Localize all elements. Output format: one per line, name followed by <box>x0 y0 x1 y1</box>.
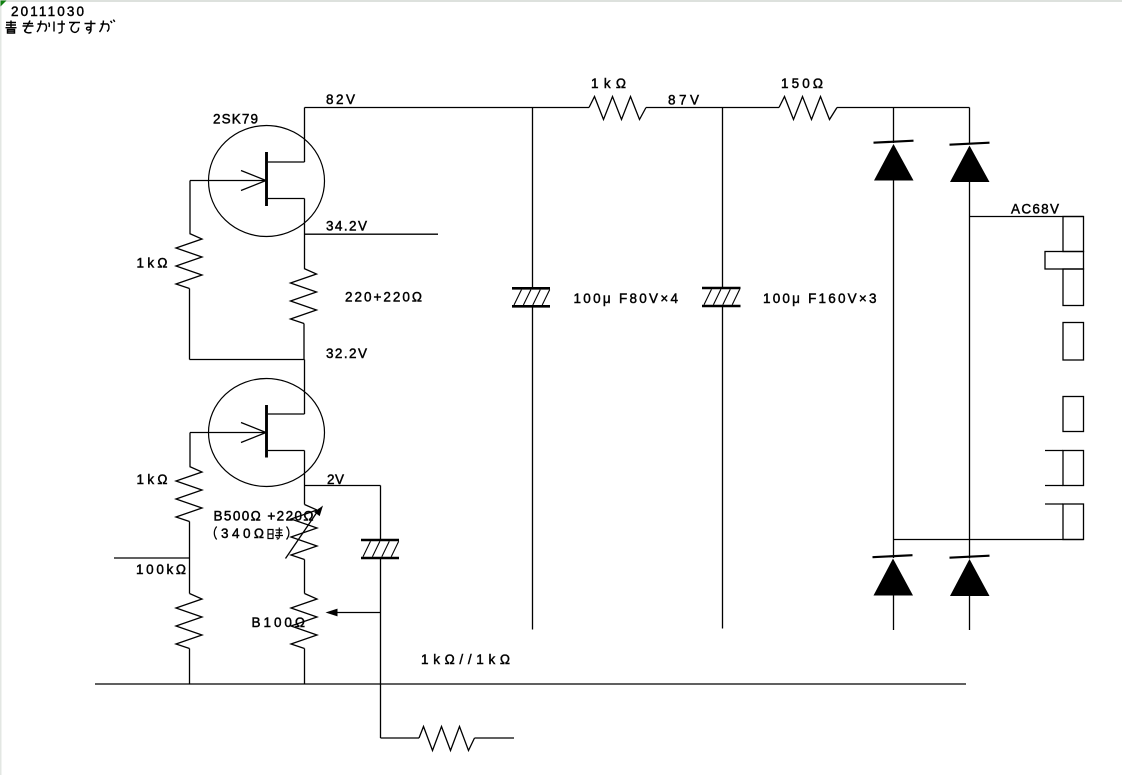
resistor 1kΩ//1kΩ (bottom) <box>381 727 515 751</box>
svg-text:87V: 87V <box>668 93 699 108</box>
resistor 150Ω <box>779 97 837 120</box>
svg-text:100μ F80V×4: 100μ F80V×4 <box>574 291 679 306</box>
wire Q1-gate-resistor bottom to source node <box>190 289 305 360</box>
wire Q2 gate resistor bottom <box>189 522 191 594</box>
resistor 1kΩ (Q2 gate) <box>176 467 202 522</box>
svg-text:2V: 2V <box>327 472 344 487</box>
wire AC68V tap <box>970 216 1084 218</box>
svg-text:AC68V: AC68V <box>1011 202 1059 217</box>
svg-text:100μ F160V×3: 100μ F160V×3 <box>763 291 877 306</box>
svg-text:32.2V: 32.2V <box>326 346 367 361</box>
transistor Q2 2SK79 (lower) <box>190 379 325 487</box>
wire 2V node <box>305 485 381 487</box>
transformer T1 winding segment 3 <box>1063 323 1084 361</box>
svg-text:2SK79: 2SK79 <box>213 112 258 127</box>
wire bottom bridge bus <box>894 539 1084 541</box>
diode D2 (top right of bridge) <box>950 108 990 540</box>
transformer T1 tap tab <box>1045 252 1084 270</box>
svg-text:B100Ω: B100Ω <box>252 615 306 630</box>
svg-text:150Ω: 150Ω <box>781 76 823 91</box>
variable resistor B500Ω+220Ω <box>286 486 324 594</box>
wire top rail segment left <box>305 107 590 109</box>
svg-text:340Ω: 340Ω <box>221 526 264 541</box>
wire top rail segment right <box>837 107 970 109</box>
note 書きかけですが (hand-drawn kana) <box>6 20 115 34</box>
transformer T1 winding segment 2 <box>1063 269 1084 306</box>
diode D1 (top left of bridge) <box>874 108 914 540</box>
capacitor C2 100μF160V×3 branch <box>702 108 741 629</box>
wire ground rail <box>95 683 966 685</box>
svg-text:100kΩ: 100kΩ <box>136 562 186 577</box>
transistor Q1 2SK79 <box>190 108 325 269</box>
wire 34.2V tap <box>305 233 439 235</box>
svg-text:1kΩ: 1kΩ <box>591 76 626 91</box>
resistor 1kΩ (Q1 gate) <box>176 234 202 289</box>
capacitor C3 (2V node) <box>361 486 399 739</box>
svg-text:20111030: 20111030 <box>11 4 84 19</box>
wire 100kΩ feed stub <box>114 557 190 559</box>
svg-text:82V: 82V <box>326 92 355 107</box>
svg-text:B500Ω +220Ω: B500Ω +220Ω <box>214 509 314 524</box>
transformer T1 winding segment 5 <box>1045 451 1084 486</box>
wire 220 resistor bottom to Q2 drain <box>303 324 306 415</box>
resistor 100kΩ <box>176 594 202 649</box>
diode D3 (bottom left of bridge) <box>873 540 914 631</box>
wire top rail segment middle <box>646 107 779 109</box>
svg-text:34.2V: 34.2V <box>326 219 367 234</box>
transformer T1 winding segment 6 <box>1045 504 1084 540</box>
resistor 220+220Ω <box>291 269 317 324</box>
diode D4 (bottom right of bridge) <box>950 540 990 631</box>
potentiometer B100Ω <box>291 594 381 685</box>
wire 100kΩ bottom to ground <box>189 649 191 685</box>
capacitor C1 100μF80V×4 branch <box>512 108 550 630</box>
svg-text:1kΩ: 1kΩ <box>137 256 168 271</box>
transformer T1 winding segment 4 <box>1063 397 1084 432</box>
label (340Ω時) <box>214 526 289 541</box>
svg-text:1kΩ: 1kΩ <box>137 472 168 487</box>
transformer T1 winding segment 1 <box>1063 217 1084 252</box>
resistor 1kΩ (rail dropper) <box>589 97 646 120</box>
